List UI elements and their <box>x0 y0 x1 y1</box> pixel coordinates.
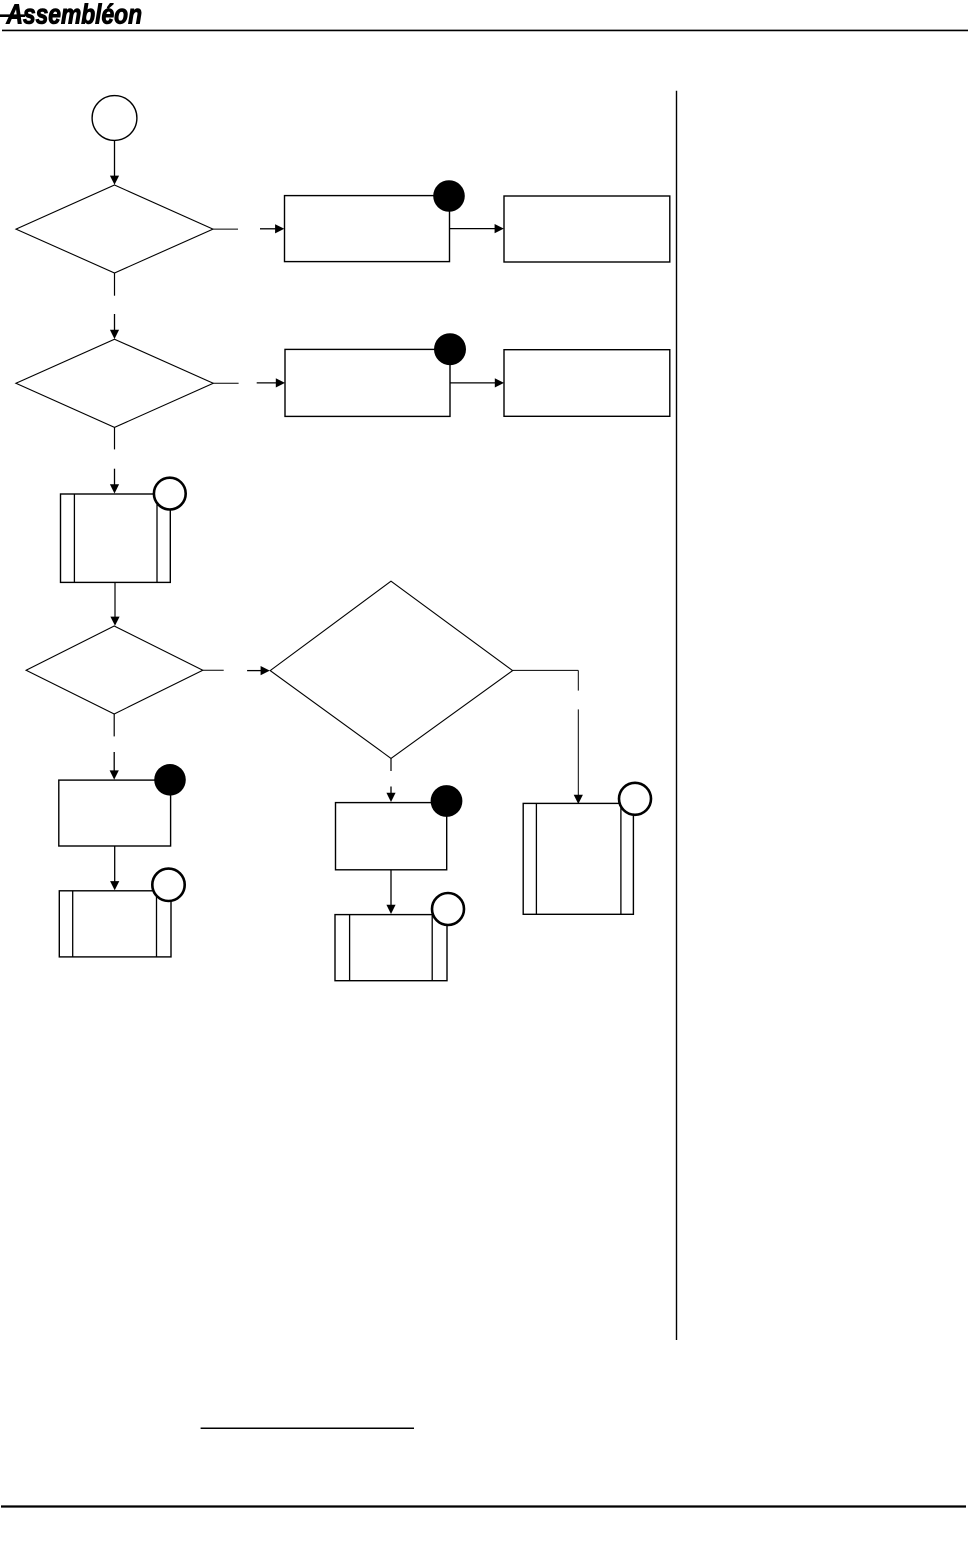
svg-text:Assembléon: Assembléon <box>6 0 142 29</box>
